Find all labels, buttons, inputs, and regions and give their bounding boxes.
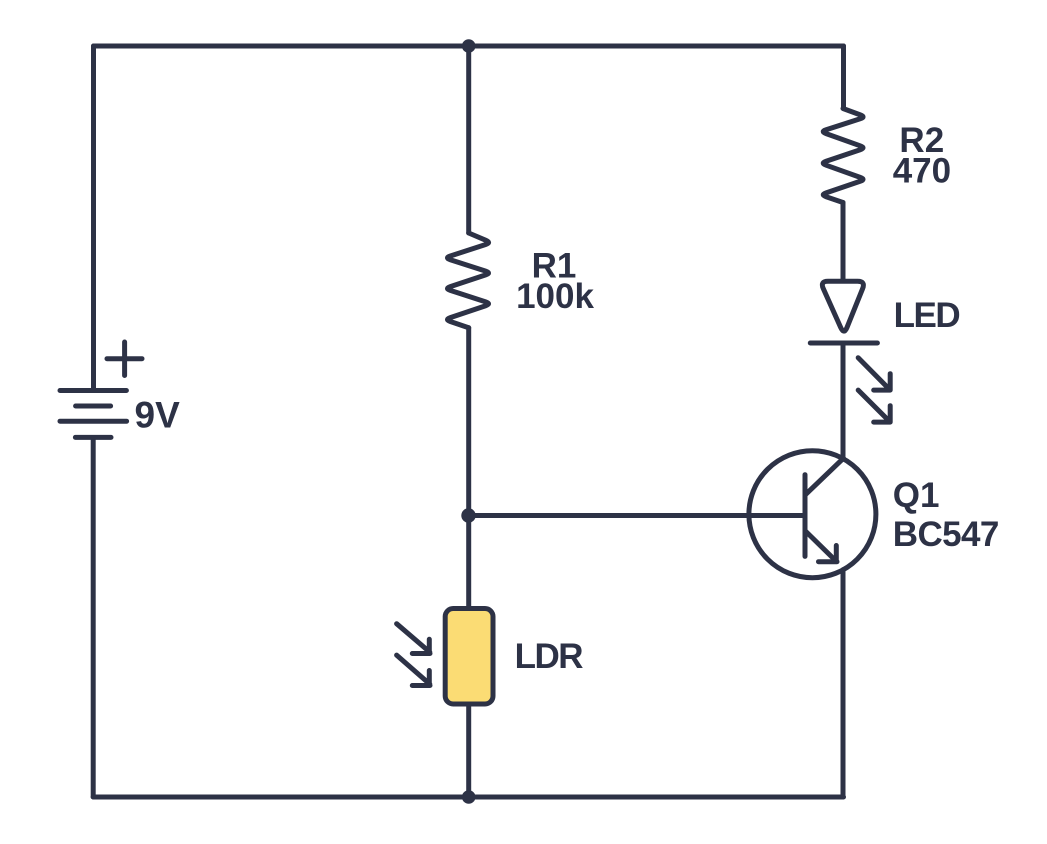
wire left rail lower [91,438,96,798]
svg-text:470: 470 [893,152,951,191]
junction dot top [462,39,476,53]
junction dot base node [461,508,475,522]
wire left rail upper [91,46,96,390]
svg-text:LDR: LDR [515,637,584,676]
transistor Q1 emitter arrowhead [819,546,838,562]
transistor Q1 circle [749,451,876,578]
battery B1 plates [60,388,126,393]
wire R2 to LED [841,203,846,280]
svg-text:9V: 9V [135,395,181,436]
battery plus sign [107,342,142,376]
svg-text:LED: LED [894,296,960,335]
wire LED to Q1 collector [841,343,846,459]
wire top rail [94,44,844,49]
svg-text:BC547: BC547 [893,515,999,554]
LDR body [445,609,493,705]
LDR light arrow 1 [397,624,430,654]
LDR light arrow 2 [397,655,430,685]
LED light arrow 2 [858,390,890,422]
resistor R2 [823,109,863,203]
resistor R1 [447,233,488,328]
wire bottom rail [93,795,843,800]
transistor Q1 base bar [803,475,808,557]
svg-text:Q1: Q1 [893,476,940,515]
junction dot bottom [462,790,476,804]
LED light arrow 1 [858,358,890,390]
wire middle vertical lower [466,704,471,797]
transistor Q1 emitter diagonal [805,531,837,562]
diode LED triangle [822,281,863,331]
wire Q1 emitter down [841,570,846,797]
svg-text:100k: 100k [516,277,594,316]
wire middle vertical mid [466,328,471,606]
wire middle vertical upper [466,46,471,233]
diode LED cathode bar [810,341,877,346]
wire base from junction to Q1 [469,513,806,518]
transistor Q1 collector diagonal [805,458,844,495]
wire right rail top [841,46,846,109]
